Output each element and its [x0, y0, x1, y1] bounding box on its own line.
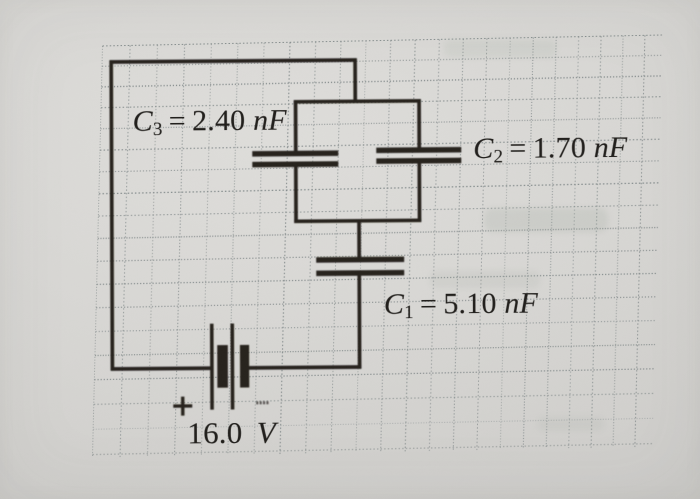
wire box bottom edge	[294, 220, 421, 221]
capacitor C1 (plates)	[316, 259, 404, 273]
battery polarity: minus sign (faint)	[256, 401, 269, 404]
battery polarity: plus sign	[173, 397, 192, 416]
label battery voltage 16.0 V	[187, 414, 276, 451]
wire top-center (top wire down to parallel box)	[353, 58, 357, 103]
wire box right edge, lower segment (C2 bottom plate to box bottom)	[417, 162, 421, 222]
capacitor C3 (plates)	[252, 153, 338, 164]
label C2 value	[473, 131, 627, 166]
wire box left edge, lower segment (C3 bottom plate to box bottom)	[294, 165, 298, 223]
junction: box bottom edge meets middle wire	[357, 219, 361, 222]
label C3 value	[133, 103, 287, 138]
wire top (outer loop, horizontal)	[110, 60, 357, 62]
wire middle (box bottom down to C1 top plate)	[357, 219, 361, 258]
junction: top-center wire meets box top edge	[353, 100, 357, 103]
wire bottom-left (battery to left wire)	[111, 366, 211, 370]
wire box left edge, upper segment (to C3 top plate)	[294, 100, 298, 152]
wire bottom-right (battery to C1 branch corner)	[249, 365, 361, 370]
wire left (outer loop, vertical)	[111, 60, 112, 370]
wire C1 bottom plate down to bottom wire	[357, 273, 361, 369]
label C1 value	[384, 286, 538, 321]
wire box top edge	[294, 101, 421, 102]
wire box right edge, upper segment (to C2 top plate)	[417, 99, 421, 149]
battery V1, 16.0 V (two cells: long thin + short thick plates)	[212, 323, 250, 409]
capacitor C2 (plates)	[376, 150, 461, 161]
